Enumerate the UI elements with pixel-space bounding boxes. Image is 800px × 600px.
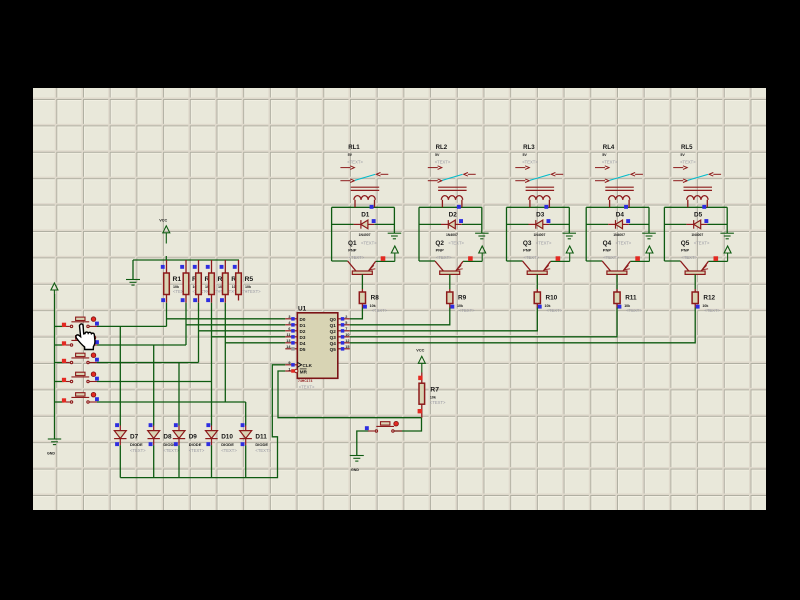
node R1 top <box>161 265 165 269</box>
svg-text:RL4: RL4 <box>603 144 615 151</box>
resistor R9 <box>447 289 475 313</box>
svg-text:Q1: Q1 <box>348 240 357 247</box>
wire relay1 coil/diode loop <box>332 207 395 261</box>
wire relay2 coil/diode loop <box>419 207 482 261</box>
node button4 left pin <box>62 378 66 382</box>
svg-text:Q4: Q4 <box>603 240 612 247</box>
wire net D2 to IC <box>199 330 286 332</box>
node R3 top <box>193 265 197 269</box>
svg-text:<TEXT>: <TEXT> <box>349 255 365 260</box>
svg-text:GND: GND <box>351 468 359 472</box>
node coil-5 pin <box>702 205 706 209</box>
node R1 bottom <box>161 298 165 302</box>
node R6 bottom <box>206 298 210 302</box>
push button SW4 <box>63 372 97 383</box>
svg-text:5V: 5V <box>435 153 440 157</box>
node Q2 emitter <box>468 256 473 261</box>
node button1 right pin <box>95 322 99 326</box>
pin D2 (pin 6) <box>285 327 306 334</box>
svg-text:<TEXT>: <TEXT> <box>694 240 710 245</box>
node Q3 emitter <box>556 256 561 261</box>
wire D10 to bus <box>211 445 213 477</box>
diode D11 <box>240 426 272 453</box>
cursor hand <box>76 324 95 350</box>
node D2 anode <box>459 219 463 223</box>
svg-text:1N4007: 1N4007 <box>446 233 458 237</box>
pin D5 (pin 14) <box>285 345 306 352</box>
svg-text:<TEXT>: <TEXT> <box>372 308 388 313</box>
svg-text:<TEXT>: <TEXT> <box>245 289 261 294</box>
pin Q2 (pin 7) <box>330 327 350 334</box>
svg-text:D3: D3 <box>536 211 545 218</box>
svg-text:D3: D3 <box>300 335 306 340</box>
node coil-3 pin <box>544 205 548 209</box>
node SW6 left pin <box>365 426 369 430</box>
svg-text:<TEXT>: <TEXT> <box>430 400 446 405</box>
svg-text:DIODE: DIODE <box>255 442 268 447</box>
svg-text:D10: D10 <box>221 433 233 440</box>
node R7 top <box>418 376 422 380</box>
svg-text:R11: R11 <box>625 294 637 301</box>
svg-text:<TEXT>: <TEXT> <box>221 448 237 453</box>
svg-text:11: 11 <box>286 333 290 337</box>
wire MR net <box>278 371 422 418</box>
pin MR (pin 1) <box>285 367 307 374</box>
node button4 right pin <box>95 377 99 381</box>
resistor R5 <box>236 260 261 301</box>
wire relay3 coil/diode loop <box>507 207 570 261</box>
node R10 bottom <box>538 305 542 309</box>
diode D7 <box>114 426 146 453</box>
wire drop to D11 <box>245 402 247 426</box>
pin D3 (pin 11) <box>285 333 306 340</box>
svg-text:2: 2 <box>345 315 347 319</box>
wire net D4 to IC <box>225 342 285 344</box>
node R9 bottom <box>450 305 454 309</box>
svg-text:RL5: RL5 <box>681 144 693 151</box>
svg-text:3: 3 <box>288 315 290 319</box>
svg-text:<TEXT>: <TEXT> <box>435 159 451 164</box>
node D11 anode <box>241 423 245 427</box>
svg-text:10: 10 <box>345 333 349 337</box>
svg-text:D2: D2 <box>449 211 458 218</box>
wire button2 row <box>97 344 186 346</box>
svg-text:PNP: PNP <box>603 247 612 252</box>
ground relay4 <box>642 233 656 239</box>
svg-text:Q3: Q3 <box>523 240 532 247</box>
node D9 cathode <box>174 442 178 446</box>
node coil-4 pin <box>624 205 628 209</box>
diode D10 <box>205 426 237 453</box>
wire bottom button right riser <box>394 418 422 431</box>
power +V relay4 <box>646 246 653 261</box>
node R8 bottom <box>363 305 367 309</box>
svg-text:PNP: PNP <box>523 247 532 252</box>
wire Q1 output net <box>350 308 450 325</box>
svg-text:D11: D11 <box>255 433 267 440</box>
power VCC top-left <box>159 219 170 244</box>
node R4 top <box>220 265 224 269</box>
svg-text:PNP: PNP <box>348 247 357 252</box>
node button5 left pin <box>62 398 66 402</box>
relay RL4 <box>595 144 643 207</box>
diode D9 <box>173 426 205 453</box>
svg-text:RL2: RL2 <box>436 144 448 151</box>
svg-text:D4: D4 <box>300 341 306 346</box>
svg-text:<TEXT>: <TEXT> <box>522 159 538 164</box>
ground relay1 <box>388 233 402 239</box>
node D5 anode <box>704 219 708 223</box>
svg-text:<TEXT>: <TEXT> <box>704 308 720 313</box>
resistor R8 <box>359 289 387 313</box>
node D1 anode <box>372 219 376 223</box>
wire net D0 to IC <box>167 318 286 320</box>
svg-text:VCC: VCC <box>416 349 424 353</box>
wire bottom button left to ground <box>357 431 369 456</box>
node Q5 emitter <box>714 256 719 261</box>
resistor R12 <box>692 289 720 313</box>
wire relay4 coil/diode loop <box>586 207 649 261</box>
svg-text:<TEXT>: <TEXT> <box>616 240 632 245</box>
diode D2 <box>441 211 462 237</box>
svg-text:<TEXT>: <TEXT> <box>536 240 552 245</box>
node D10 anode <box>206 423 210 427</box>
relay RL5 <box>673 144 721 207</box>
wire button1 left <box>55 325 64 327</box>
svg-text:MR: MR <box>300 369 308 374</box>
svg-text:RL1: RL1 <box>348 144 360 151</box>
svg-text:D1: D1 <box>361 211 370 218</box>
node D8 cathode <box>149 442 153 446</box>
pin Q3 (pin 10) <box>330 333 350 340</box>
node button3 right pin <box>95 358 99 362</box>
wire D11 to bus <box>245 445 247 477</box>
node button1 left pin <box>62 323 66 327</box>
svg-text:R12: R12 <box>703 294 715 301</box>
svg-text:<TEXT>: <TEXT> <box>436 255 452 260</box>
resistor R3 <box>196 260 221 303</box>
svg-text:D7: D7 <box>130 433 139 440</box>
wire left ground rail <box>54 294 56 439</box>
svg-text:D9: D9 <box>189 433 198 440</box>
transistor Q5 (PNP) <box>680 240 710 289</box>
node R4 bottom <box>220 298 224 302</box>
wire rail to ground <box>132 260 134 280</box>
svg-text:<TEXT>: <TEXT> <box>130 448 146 453</box>
node button3 left pin <box>62 359 66 363</box>
node button5 right pin <box>95 397 99 401</box>
transistor Q4 (PNP) <box>602 240 632 289</box>
node R5 top <box>233 265 237 269</box>
wire D8 to bus <box>153 445 155 477</box>
power +V relay3 <box>566 246 573 261</box>
svg-text:74HC174: 74HC174 <box>298 379 312 383</box>
transistor Q3 (PNP) <box>523 240 553 289</box>
svg-text:6: 6 <box>288 327 290 331</box>
node Q4 emitter <box>635 256 640 261</box>
wire Q0 output net <box>350 308 363 319</box>
svg-text:PNP: PNP <box>681 247 690 252</box>
pin D1 (pin 4) <box>285 321 306 328</box>
node D8 anode <box>149 423 153 427</box>
resistor R11 <box>614 289 642 313</box>
ground relay3 <box>563 233 577 239</box>
svg-text:<TEXT>: <TEXT> <box>602 159 618 164</box>
svg-text:<TEXT>: <TEXT> <box>448 240 464 245</box>
svg-text:10k: 10k <box>430 395 436 399</box>
transistor Q1 (PNP) <box>348 240 378 289</box>
push button SW6 <box>368 421 402 432</box>
node coil-2 pin <box>457 205 461 209</box>
svg-text:<TEXT>: <TEXT> <box>459 308 475 313</box>
wire button5 left <box>55 401 64 403</box>
node R7 bottom <box>418 409 422 413</box>
node D7 anode <box>115 423 119 427</box>
wire button1 row <box>97 325 167 327</box>
wire drop to D9 <box>178 363 180 426</box>
svg-text:D1: D1 <box>300 323 306 328</box>
svg-text:VCC: VCC <box>159 219 167 223</box>
power +V relay1 <box>391 246 398 261</box>
svg-text:R5: R5 <box>245 276 254 283</box>
svg-text:<TEXT>: <TEXT> <box>603 255 619 260</box>
wire net D4 vertical <box>224 303 226 402</box>
svg-text:DIODE: DIODE <box>130 442 143 447</box>
svg-text:Q3: Q3 <box>330 335 337 340</box>
svg-text:<TEXT>: <TEXT> <box>626 308 642 313</box>
node R11 bottom <box>618 305 622 309</box>
ground relay5 <box>720 233 734 239</box>
svg-text:U1: U1 <box>298 305 307 312</box>
diode D1 <box>354 211 375 237</box>
wire Q4 output net <box>350 308 695 343</box>
diode D4 <box>608 211 629 237</box>
svg-text:1N4007: 1N4007 <box>691 233 703 237</box>
power +V relay2 <box>479 246 486 261</box>
op-amp U1 74HC174 body <box>297 305 338 389</box>
svg-text:Q4: Q4 <box>330 341 337 346</box>
wire net D1 vertical <box>185 303 187 345</box>
wire button2 left <box>55 344 64 346</box>
push button SW2 <box>63 335 97 346</box>
wire Q3 output net <box>350 308 617 337</box>
diode D3 <box>529 211 550 237</box>
relay RL3 <box>515 144 563 207</box>
wire button5 row <box>97 401 246 403</box>
node R3 bottom <box>193 298 197 302</box>
svg-text:R1: R1 <box>173 276 182 283</box>
power VCC R7 <box>416 349 425 373</box>
resistor R4 <box>223 260 248 303</box>
node button2 right pin <box>95 340 99 344</box>
ground relay2 <box>475 233 489 239</box>
svg-text:Q2: Q2 <box>435 240 444 247</box>
node R12 bottom <box>696 305 700 309</box>
push button SW1 <box>63 317 97 328</box>
node button2 left pin <box>62 341 66 345</box>
svg-text:<TEXT>: <TEXT> <box>299 385 315 390</box>
svg-text:R9: R9 <box>458 294 467 301</box>
svg-text:Q2: Q2 <box>330 329 337 334</box>
svg-text:5V: 5V <box>680 153 685 157</box>
svg-text:5V: 5V <box>523 153 528 157</box>
resistor R2 <box>183 260 208 303</box>
svg-text:Q0: Q0 <box>330 317 337 322</box>
svg-text:Q1: Q1 <box>330 323 337 328</box>
svg-text:Q5: Q5 <box>330 347 337 352</box>
wire Q2 output net <box>350 308 538 331</box>
ground top-left <box>126 280 140 286</box>
node R6 top <box>206 265 210 269</box>
svg-text:RL3: RL3 <box>523 144 535 151</box>
pin Q1 (pin 5) <box>330 321 350 328</box>
svg-text:1N4007: 1N4007 <box>359 233 371 237</box>
wire net D0 vertical <box>166 303 168 327</box>
svg-text:D8: D8 <box>163 433 172 440</box>
pin Q4 (pin 12) <box>330 339 350 346</box>
node D9 anode <box>174 423 178 427</box>
ground left rail <box>47 439 61 455</box>
svg-text:GND: GND <box>47 451 55 455</box>
wire button3 left <box>55 362 64 364</box>
node R2 top <box>180 265 184 269</box>
pin D4 (pin 13) <box>285 339 306 346</box>
power arrow left rail <box>51 283 58 294</box>
wire button4 row <box>97 381 212 383</box>
wire net D3 vertical <box>211 303 213 426</box>
svg-text:<TEXT>: <TEXT> <box>347 159 363 164</box>
pin CLK (pin 9) <box>285 361 312 368</box>
svg-text:<TEXT>: <TEXT> <box>189 448 205 453</box>
resistor R10 <box>534 289 562 313</box>
wire CLK bus bottom <box>120 365 285 478</box>
wire relay5 coil/diode loop <box>664 207 727 261</box>
svg-text:5V: 5V <box>348 153 353 157</box>
svg-text:D0: D0 <box>300 317 306 322</box>
svg-text:5: 5 <box>345 321 347 325</box>
svg-text:R7: R7 <box>430 386 439 393</box>
push button SW3 <box>63 353 97 364</box>
svg-text:CLK: CLK <box>303 363 313 368</box>
resistor R1 <box>164 260 189 303</box>
node D10 cathode <box>206 442 210 446</box>
svg-text:1N4007: 1N4007 <box>613 233 625 237</box>
svg-text:<TEXT>: <TEXT> <box>255 448 271 453</box>
svg-text:1N4007: 1N4007 <box>534 233 546 237</box>
svg-text:<TEXT>: <TEXT> <box>547 308 563 313</box>
svg-text:9: 9 <box>288 361 290 365</box>
power +V relay5 <box>724 246 731 261</box>
svg-text:7: 7 <box>345 327 347 331</box>
svg-text:D2: D2 <box>300 329 306 334</box>
svg-text:R8: R8 <box>371 294 380 301</box>
svg-text:D4: D4 <box>616 211 625 218</box>
node D7 cathode <box>115 442 119 446</box>
wire button4 left <box>55 381 64 383</box>
pin Q0 (pin 2) <box>330 315 350 322</box>
node Q1 emitter <box>381 256 386 261</box>
node D4 anode <box>626 219 630 223</box>
node R2 bottom <box>181 298 185 302</box>
svg-text:<TEXT>: <TEXT> <box>680 159 696 164</box>
relay RL1 <box>340 144 388 207</box>
ground SW6 <box>350 456 364 473</box>
svg-text:R10: R10 <box>546 294 558 301</box>
svg-text:D5: D5 <box>300 347 306 352</box>
svg-text:<TEXT>: <TEXT> <box>524 255 540 260</box>
svg-text:<TEXT>: <TEXT> <box>681 255 697 260</box>
wire resistor top rail <box>133 259 239 261</box>
resistor R7 <box>419 373 446 418</box>
wire D9 to bus <box>178 445 180 477</box>
wire net D2 vertical <box>198 303 200 363</box>
wire D7 to bus <box>119 445 121 477</box>
transistor Q2 (PNP) <box>435 240 465 289</box>
svg-text:5V: 5V <box>602 153 607 157</box>
svg-text:D5: D5 <box>694 211 703 218</box>
svg-text:DIODE: DIODE <box>189 442 202 447</box>
wire button3 row <box>97 362 199 364</box>
pin D0 (pin 3) <box>285 315 306 322</box>
svg-text:PNP: PNP <box>436 247 445 252</box>
node D11 cathode <box>241 442 245 446</box>
wire net D3 to IC <box>212 336 286 338</box>
wire net D1 to IC <box>186 324 285 326</box>
diode D5 <box>686 211 707 237</box>
svg-text:1: 1 <box>288 367 290 371</box>
svg-text:15: 15 <box>345 345 349 349</box>
wire drop to D7 <box>119 326 121 425</box>
wire drop to D8 <box>153 345 155 426</box>
relay RL2 <box>428 144 476 207</box>
node coil-1 pin <box>370 205 374 209</box>
svg-text:DIODE: DIODE <box>221 442 234 447</box>
wire VCC stub <box>165 256 167 260</box>
resistor R6 <box>209 260 234 303</box>
pin Q5 (pin 15) <box>330 345 350 352</box>
diode D8 <box>148 426 180 453</box>
svg-text:Q5: Q5 <box>681 240 690 247</box>
svg-text:<TEXT>: <TEXT> <box>163 448 179 453</box>
push button SW5 <box>63 392 97 403</box>
svg-text:12: 12 <box>345 339 349 343</box>
node D3 anode <box>547 219 551 223</box>
svg-text:13: 13 <box>286 339 290 343</box>
svg-text:<TEXT>: <TEXT> <box>361 240 377 245</box>
